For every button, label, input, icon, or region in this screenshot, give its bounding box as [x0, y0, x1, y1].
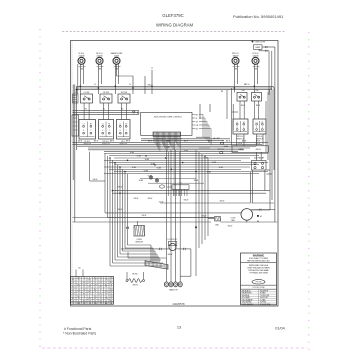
svg-text:* Non-Illustrated Parts: * Non-Illustrated Parts — [63, 332, 96, 336]
svg-text:ELECTRONIC OVEN CONTROL: ELECTRONIC OVEN CONTROL — [154, 116, 182, 118]
svg-text:8: 8 — [100, 291, 101, 293]
svg-text:BK-W: BK-W — [228, 226, 233, 228]
svg-text:12: 12 — [100, 284, 102, 286]
svg-text:12: 12 — [94, 287, 96, 289]
svg-text:H1: H1 — [243, 122, 245, 124]
svg-text:BK-W: BK-W — [142, 215, 147, 217]
svg-text:P: P — [237, 127, 238, 129]
svg-text:BK W: BK W — [184, 141, 189, 143]
svg-text:BK-W: BK-W — [118, 187, 123, 189]
svg-text:L1: L1 — [94, 84, 96, 86]
svg-text:L1: L1 — [256, 122, 258, 124]
svg-text:8: 8 — [84, 280, 85, 282]
svg-text:DLB RELAY: DLB RELAY — [254, 156, 265, 159]
svg-text:14: 14 — [100, 298, 102, 300]
svg-text:BK W: BK W — [256, 105, 261, 107]
svg-text:H1: H1 — [108, 123, 110, 125]
svg-text:14: 14 — [110, 294, 112, 296]
svg-text:MAIN TOP: MAIN TOP — [169, 289, 178, 292]
svg-text:BK W: BK W — [208, 141, 213, 143]
svg-text:BK-W: BK-W — [118, 209, 123, 211]
svg-text:14: 14 — [72, 291, 74, 293]
svg-text:2: 2 — [90, 130, 91, 132]
svg-text:8: 8 — [111, 287, 112, 289]
svg-text:8: 8 — [89, 277, 90, 279]
svg-text:WZ SW: WZ SW — [121, 92, 127, 94]
svg-text:14: 14 — [105, 296, 107, 298]
svg-text:8: 8 — [73, 303, 74, 305]
svg-text:8: 8 — [95, 294, 96, 296]
svg-text:W: W — [196, 118, 198, 120]
svg-text:SW: SW — [242, 90, 245, 92]
svg-text:L1: L1 — [236, 122, 238, 124]
svg-text:P4: P4 — [179, 182, 181, 184]
svg-text:OVEN LIGHT: OVEN LIGHT — [255, 41, 267, 43]
svg-text:LF SW: LF SW — [84, 92, 90, 94]
svg-text:TYPE AND SIZE WIRE: TYPE AND SIZE WIRE — [249, 272, 268, 275]
svg-text:BK-W: BK-W — [220, 201, 225, 203]
svg-text:P3: P3 — [121, 109, 123, 111]
svg-text:WARNING: WARNING — [253, 254, 265, 257]
svg-text:12: 12 — [72, 296, 74, 298]
svg-text:BEFORE SERVICING UNIT: BEFORE SERVICING UNIT — [247, 261, 270, 263]
svg-text:BK W: BK W — [242, 141, 247, 143]
svg-text:R-W=RD/WH: R-W=RD/WH — [260, 304, 271, 306]
svg-text:BK W: BK W — [166, 141, 171, 143]
svg-text:H1: H1 — [261, 122, 263, 124]
svg-text:BK-W: BK-W — [148, 198, 153, 200]
svg-text:WIRING DIAGRAM: WIRING DIAGRAM — [156, 23, 194, 28]
svg-text:DL MOTOR: DL MOTOR — [168, 239, 178, 241]
svg-text:BK W: BK W — [94, 141, 99, 143]
svg-text:01/04: 01/04 — [275, 327, 285, 331]
svg-text:HI-LIMIT: HI-LIMIT — [213, 138, 220, 140]
svg-text:12: 12 — [78, 294, 80, 296]
svg-text:BK W: BK W — [148, 141, 153, 143]
svg-text:COLOR CODE: COLOR CODE — [252, 287, 265, 289]
svg-text:TCO #8: TCO #8 — [218, 149, 224, 151]
svg-text:Publication No. 5995401491: Publication No. 5995401491 — [233, 14, 284, 19]
svg-text:BK-W: BK-W — [134, 198, 139, 200]
svg-text:P: P — [102, 130, 103, 132]
svg-text:8: 8 — [106, 289, 107, 291]
svg-text:12: 12 — [110, 280, 112, 282]
svg-text:L1: L1 — [83, 123, 85, 125]
svg-text:14: 14 — [78, 289, 80, 291]
svg-text:14: 14 — [105, 277, 107, 279]
svg-text:12: 12 — [89, 289, 91, 291]
svg-text:8: 8 — [84, 298, 85, 300]
svg-text:2: 2 — [243, 127, 244, 129]
svg-text:14: 14 — [83, 287, 85, 289]
svg-text:2: 2 — [126, 130, 127, 132]
svg-text:14: 14 — [100, 280, 102, 282]
svg-text:L1: L1 — [119, 123, 121, 125]
svg-text:W-BK=WH/BLK: W-BK=WH/BLK — [242, 304, 255, 306]
svg-text:BROIL: BROIL — [256, 149, 261, 151]
svg-text:12: 12 — [72, 277, 74, 279]
svg-text:8: 8 — [89, 296, 90, 298]
svg-text:P: P — [83, 130, 84, 132]
svg-text:12: 12 — [105, 282, 107, 284]
svg-text:L1: L1 — [102, 123, 104, 125]
svg-text:H1: H1 — [125, 123, 127, 125]
svg-text:RF SW: RF SW — [103, 92, 109, 94]
svg-text:BROIL: BROIL — [133, 284, 138, 286]
svg-text:TEMP. INSULATION WHEN: TEMP. INSULATION WHEN — [247, 266, 270, 269]
svg-text:2: 2 — [109, 130, 110, 132]
svg-text:2: 2 — [262, 127, 263, 129]
svg-text:BK 10: BK 10 — [148, 84, 153, 86]
svg-text:BK W: BK W — [110, 141, 115, 143]
svg-text:SW: SW — [256, 90, 259, 92]
svg-text:12: 12 — [83, 291, 85, 293]
svg-text:P2: P2 — [103, 109, 105, 111]
svg-text:BK W: BK W — [78, 141, 83, 143]
svg-text:BK-W: BK-W — [202, 216, 207, 218]
svg-text:BK-W: BK-W — [168, 254, 173, 256]
svg-text:H1: H1 — [90, 123, 92, 125]
svg-text:12: 12 — [100, 303, 102, 305]
svg-text:WIRES MAY USE HIGH: WIRES MAY USE HIGH — [249, 264, 269, 267]
svg-text:# Functional Parts: # Functional Parts — [64, 327, 92, 331]
svg-text:GLEF379C: GLEF379C — [162, 13, 184, 18]
svg-text:BK W: BK W — [126, 141, 131, 143]
svg-text:13: 13 — [177, 326, 181, 330]
svg-text:8: 8 — [73, 284, 74, 286]
svg-text:P/N 316: P/N 316 — [256, 282, 262, 284]
svg-text:P1: P1 — [85, 109, 87, 111]
svg-text:8: 8 — [78, 282, 79, 284]
svg-text:P: P — [256, 127, 257, 129]
svg-text:14: 14 — [89, 284, 91, 286]
svg-text:14: 14 — [94, 282, 96, 284]
svg-text:L1: L1 — [151, 68, 153, 70]
svg-text:REPLACING USE SAME: REPLACING USE SAME — [248, 269, 269, 272]
svg-text:BK W: BK W — [256, 141, 261, 143]
svg-text:12: 12 — [110, 298, 112, 300]
svg-text:24025578: 24025578 — [173, 302, 185, 306]
svg-text:GY-W: GY-W — [159, 202, 164, 204]
svg-text:BK RD: BK RD — [132, 273, 138, 275]
svg-text:BK-W: BK-W — [93, 179, 98, 181]
svg-text:BK W: BK W — [226, 141, 231, 143]
svg-text:BK W: BK W — [241, 105, 246, 107]
svg-text:RD 10: RD 10 — [245, 84, 250, 86]
svg-text:BK-W: BK-W — [184, 200, 189, 202]
svg-text:SENSOR: SENSOR — [135, 241, 143, 243]
svg-text:P: P — [120, 130, 121, 132]
